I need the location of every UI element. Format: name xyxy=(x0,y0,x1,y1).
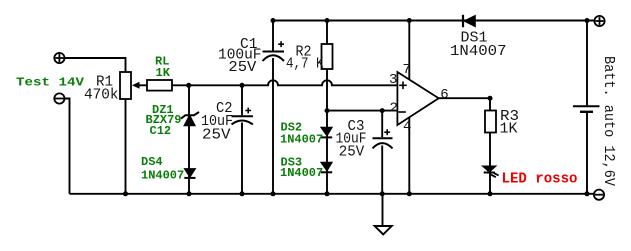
svg-text:25V: 25V xyxy=(339,143,365,160)
wire LED to rail xyxy=(489,172,491,194)
svg-text:470k: 470k xyxy=(84,87,119,104)
wire DS2/DS3 column xyxy=(326,111,328,194)
wire battery bottom xyxy=(586,113,588,194)
svg-text:1N4007: 1N4007 xyxy=(280,132,323,146)
wire C1 bottom to rail xyxy=(272,58,274,194)
R1 wiper arrow xyxy=(132,82,147,89)
node C3 junction xyxy=(380,108,385,113)
svg-text:25V: 25V xyxy=(228,59,256,76)
zener DZ1 xyxy=(181,112,199,126)
svg-text:1N4007: 1N4007 xyxy=(450,43,507,60)
svg-text:1K: 1K xyxy=(156,66,171,80)
wire C3 top xyxy=(381,111,383,138)
resistor R2 body xyxy=(322,44,333,69)
svg-text:DS4: DS4 xyxy=(141,155,163,169)
wire R2 top xyxy=(326,21,328,45)
capacitor C1 xyxy=(263,41,285,61)
wire C3 bottom to rail xyxy=(381,146,383,194)
wire RL to op-amp pin 3 (with crossover hops) xyxy=(172,80,397,85)
node output/R3 junction xyxy=(488,96,493,101)
node R2 top xyxy=(325,18,330,23)
diode DS3 xyxy=(321,162,332,172)
battery B1 xyxy=(573,106,600,112)
node pin7 top xyxy=(407,18,412,23)
diode DS1 xyxy=(463,15,475,27)
svg-text:2: 2 xyxy=(390,101,398,117)
diode DS4 xyxy=(184,169,195,178)
node ground junction xyxy=(380,191,385,196)
node RL/DZ1 junction xyxy=(186,83,191,88)
capacitor C3 xyxy=(373,129,393,148)
svg-text:LED rosso: LED rosso xyxy=(502,170,578,187)
op-amp U1 xyxy=(397,72,438,125)
svg-text:25V: 25V xyxy=(202,127,231,144)
svg-text:6: 6 xyxy=(440,87,448,103)
ground xyxy=(375,226,392,234)
diode DS2 xyxy=(321,127,332,137)
capacitor C2 xyxy=(232,108,253,125)
terminal P1 + (test input) xyxy=(54,53,64,63)
node LED bottom xyxy=(488,191,493,196)
node C1 bottom xyxy=(271,191,276,196)
node pin4 bottom xyxy=(407,191,412,196)
node R1 bottom xyxy=(123,191,128,196)
wire R3 to LED xyxy=(489,133,491,168)
pin 7 wire xyxy=(408,21,410,80)
pin 6 output wire xyxy=(439,98,490,110)
node DS4 bottom xyxy=(187,191,192,196)
wire from - terminal down to bottom rail xyxy=(65,99,70,194)
wire from + terminal to R1 top xyxy=(65,58,126,72)
terminal P2 - (test input) xyxy=(54,93,64,103)
terminal - (battery) xyxy=(594,190,604,200)
svg-text:4,7 K: 4,7 K xyxy=(286,56,324,73)
svg-text:3: 3 xyxy=(389,72,397,88)
node C2 junction xyxy=(240,83,245,88)
wire pin 2 net xyxy=(327,110,397,112)
svg-text:1K: 1K xyxy=(500,121,518,138)
node DS3 bottom xyxy=(325,191,330,196)
node R2/DS2 junction xyxy=(325,108,330,113)
terminal + (battery) xyxy=(594,16,604,26)
svg-text:1N4007: 1N4007 xyxy=(280,166,323,180)
node battery top xyxy=(585,18,590,23)
svg-text:1N4007: 1N4007 xyxy=(141,169,184,183)
wire C2 top xyxy=(241,85,243,115)
svg-text:Batt. auto 12,6V: Batt. auto 12,6V xyxy=(600,56,617,186)
svg-text:C12: C12 xyxy=(150,124,172,138)
LED red xyxy=(484,167,499,178)
wire R1 bottom to rail xyxy=(125,99,127,194)
resistor R3 body xyxy=(485,111,496,133)
op-amp inverting - mark xyxy=(398,111,406,113)
op-amp non-inverting + mark xyxy=(399,82,407,90)
wire bottom ground rail xyxy=(70,193,595,195)
node C1 top xyxy=(271,18,276,23)
resistor RL body xyxy=(147,80,172,91)
wire R2 bottom to pin2 node xyxy=(326,69,328,111)
svg-text:4: 4 xyxy=(403,119,411,135)
potentiometer R1 body xyxy=(120,72,131,99)
wire C2 bottom to rail xyxy=(241,123,243,194)
wire C1 top xyxy=(272,21,274,51)
svg-text:7: 7 xyxy=(403,62,411,78)
wire DZ1/DS4 column xyxy=(188,85,190,194)
pin 4 wire xyxy=(408,117,410,194)
wire ground stem xyxy=(382,194,384,226)
node C2 bottom xyxy=(240,191,245,196)
wire top supply rail xyxy=(273,20,595,22)
svg-text:Test 14V: Test 14V xyxy=(16,76,85,90)
node battery bottom xyxy=(585,191,590,196)
wire battery top xyxy=(586,21,588,106)
